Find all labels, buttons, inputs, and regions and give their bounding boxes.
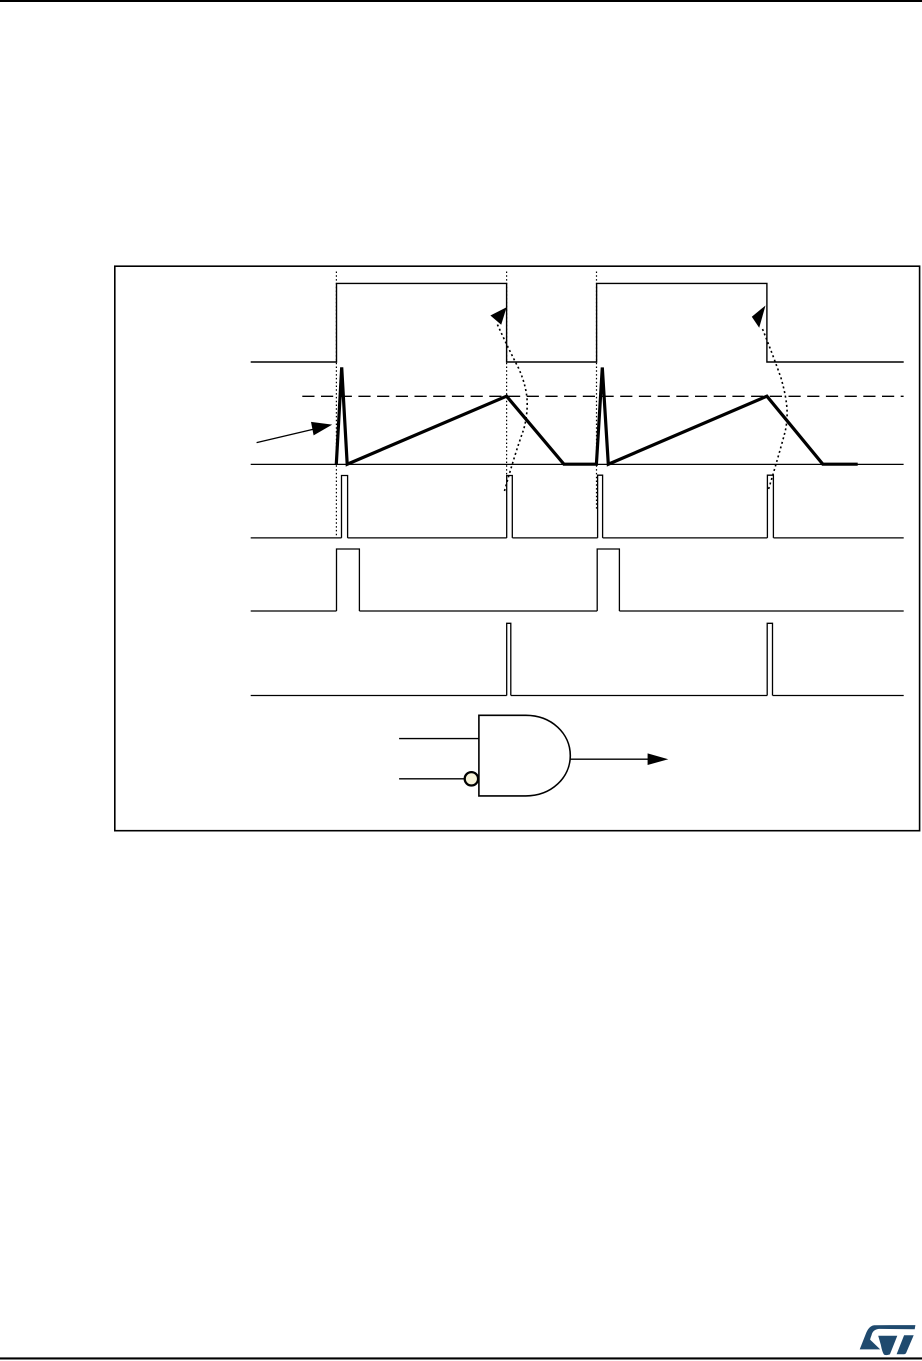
dotted vertical line at first rising edge (335, 272, 337, 538)
dotted vertical line at second rising edge (596, 272, 598, 510)
ST logo piece S-lower (878, 1336, 897, 1355)
figure frame (115, 266, 920, 831)
NAND gate inverting bubble (465, 772, 478, 785)
square wave PWM signal (251, 283, 904, 362)
thick sawtooth counter ramp (336, 367, 857, 464)
row A pulse 3 (598, 475, 603, 538)
straight annotation arrowhead (311, 422, 332, 436)
dotted curved arrow 1 head (490, 307, 506, 324)
row B pulse 2 (597, 549, 619, 611)
ST logo piece T-stem (897, 1335, 914, 1354)
dotted curved arrow 2 curve (762, 327, 788, 490)
NAND gate input wire 2 (399, 778, 464, 780)
row A baseline segments (251, 537, 904, 539)
row C pulse 2 (767, 623, 772, 695)
dashed compare threshold line (302, 395, 903, 397)
dotted curved arrow 2 head (752, 306, 766, 328)
row B pulse 1 (337, 549, 360, 611)
bottom rule (0, 1357, 922, 1359)
NAND gate output arrowhead (648, 753, 669, 765)
counter baseline (251, 463, 904, 465)
dotted curved arrow 1 curve (497, 323, 528, 492)
NAND gate input wire 1 (399, 738, 479, 740)
row A pulse 1 (342, 476, 348, 538)
NAND gate output wire (570, 758, 649, 760)
row A pulse 4 (767, 475, 773, 538)
NAND gate U1 body (479, 715, 570, 796)
row A pulse 2 (507, 476, 513, 538)
dotted vertical line at first falling edge (506, 272, 508, 477)
row B baseline segments (251, 610, 904, 612)
row C baseline segments (251, 695, 904, 697)
straight annotation arrow shaft (257, 429, 316, 443)
row C pulse 1 (507, 623, 511, 695)
top rule (0, 0, 922, 2)
ST logo piece S-upper (860, 1325, 916, 1349)
